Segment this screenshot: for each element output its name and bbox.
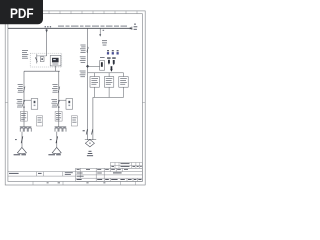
svg-text:PDF: PDF bbox=[10, 5, 34, 21]
